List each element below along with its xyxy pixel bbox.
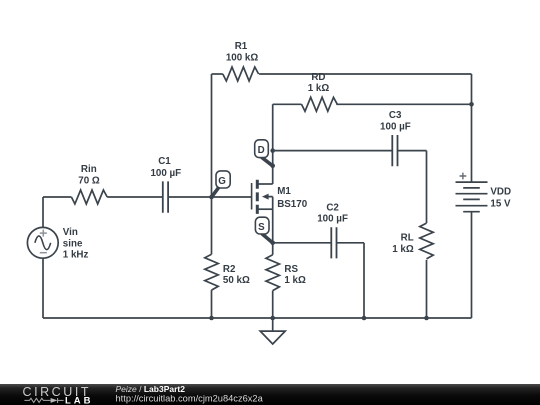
svg-text:15 V: 15 V: [490, 199, 511, 210]
label box S tail: [262, 234, 272, 243]
wire RD right lead: [336, 103, 471, 105]
battery plus sign: [460, 173, 467, 180]
wire source vertical: [272, 209, 274, 243]
resistor Rin: [71, 190, 107, 204]
svg-text:RS: RS: [284, 264, 298, 275]
capacitor C2: [331, 227, 336, 258]
wire R1 left stub: [212, 73, 223, 75]
svg-text:BS170: BS170: [277, 199, 308, 210]
svg-text:sine: sine: [63, 238, 83, 249]
wire R2 bottom: [211, 290, 213, 318]
svg-text:D: D: [258, 145, 265, 156]
wire gate lead: [212, 196, 252, 198]
svg-text:100 kΩ: 100 kΩ: [226, 53, 259, 64]
wire drain vertical: [272, 104, 274, 184]
wire node G up to R1: [211, 74, 213, 197]
transistor M1 drain connector: [257, 183, 272, 185]
wire C2 to corner: [337, 242, 365, 244]
wire left rail bottom: [42, 258, 44, 318]
source Vin minus: [40, 252, 47, 254]
svg-text:http://circuitlab.com/cjm2u84c: http://circuitlab.com/cjm2u84cz6x2a: [116, 394, 264, 404]
wire bottom rail: [43, 317, 472, 319]
resistor RL: [420, 223, 433, 259]
wire R1 to VDD top: [259, 73, 471, 75]
transistor M1 gate plate: [251, 183, 253, 210]
wire RD left lead to drain wire: [273, 103, 302, 105]
resistor RD: [302, 97, 338, 111]
label box S: [255, 217, 269, 234]
label box G: [216, 171, 230, 188]
wire VDD battery top lead: [471, 104, 473, 182]
capacitor C3: [392, 135, 397, 166]
battery VDD plates: [456, 182, 488, 212]
node R2 bottom rail dot: [209, 316, 214, 321]
wire node G to R2: [211, 197, 213, 254]
wire Rin to C1: [107, 196, 163, 198]
node G junction dot: [209, 195, 214, 200]
transistor M1 bulk arrow line: [268, 197, 273, 210]
svg-text:RD: RD: [311, 72, 325, 83]
node drain C3 junction dot: [270, 148, 275, 153]
source Vin sine: [35, 236, 51, 250]
svg-text:R2: R2: [223, 264, 236, 275]
svg-text:RL: RL: [401, 233, 414, 244]
wire ground stem: [272, 318, 274, 331]
svg-text:70 Ω: 70 Ω: [78, 176, 100, 187]
svg-text:C3: C3: [389, 110, 402, 121]
node S junction dot: [270, 241, 275, 246]
svg-text:1 kΩ: 1 kΩ: [308, 83, 330, 94]
resistor RS: [266, 255, 279, 291]
svg-text:S: S: [258, 222, 265, 233]
svg-text:G: G: [218, 176, 226, 187]
wire C3 row: [273, 150, 393, 152]
source Vin plus: [40, 230, 47, 237]
svg-text:1 kΩ: 1 kΩ: [392, 244, 414, 255]
wire C2 down to rail: [363, 243, 365, 318]
wire left rail top: [42, 197, 44, 227]
label box D tail: [262, 157, 272, 165]
wire down to RL: [426, 151, 428, 224]
node D label anchor dot: [270, 163, 275, 168]
wire C3 to corner: [398, 150, 427, 152]
svg-text:Vin: Vin: [63, 227, 78, 238]
label box D: [255, 140, 269, 158]
svg-text:C1: C1: [158, 156, 171, 167]
node VDD RD junction dot: [469, 102, 474, 107]
transistor M1 source connector: [257, 208, 272, 210]
svg-text:100 µF: 100 µF: [317, 214, 348, 225]
capacitor C1: [163, 181, 168, 212]
svg-text:1 kΩ: 1 kΩ: [284, 275, 306, 286]
transistor M1 arrow head: [262, 194, 269, 200]
svg-text:R1: R1: [235, 41, 248, 52]
svg-text:100 µF: 100 µF: [150, 168, 181, 179]
node ground rail dot: [270, 316, 275, 321]
transistor M1 channel bars: [256, 180, 259, 214]
svg-text:Rin: Rin: [81, 164, 97, 175]
source Vin circle: [27, 227, 58, 258]
wire battery bottom lead: [471, 212, 473, 318]
wire C2 row: [273, 242, 332, 244]
svg-text:M1: M1: [277, 186, 291, 197]
resistor R2: [205, 254, 218, 290]
svg-text:1 kHz: 1 kHz: [63, 250, 89, 261]
svg-text:VDD: VDD: [490, 187, 511, 198]
wire down to RD junction: [471, 74, 473, 104]
ground symbol: [260, 331, 285, 344]
label box G tail: [212, 187, 219, 196]
wire RL bottom: [426, 260, 428, 318]
wire RS bottom: [272, 291, 274, 318]
svg-text:C2: C2: [326, 202, 339, 213]
node RL rail dot: [424, 316, 429, 321]
node C2 rail dot: [362, 316, 367, 321]
logo wire doodle: [24, 398, 63, 403]
svg-text:100 µF: 100 µF: [380, 121, 411, 132]
resistor R1: [223, 67, 259, 81]
wire RS top: [272, 243, 274, 255]
wire input row left segment: [43, 196, 71, 198]
wire C1 to node G: [168, 196, 211, 198]
footer bar: [0, 384, 540, 405]
svg-text:50 kΩ: 50 kΩ: [223, 275, 250, 286]
logo diode triangle: [51, 398, 58, 403]
svg-text:LAB: LAB: [65, 395, 94, 405]
